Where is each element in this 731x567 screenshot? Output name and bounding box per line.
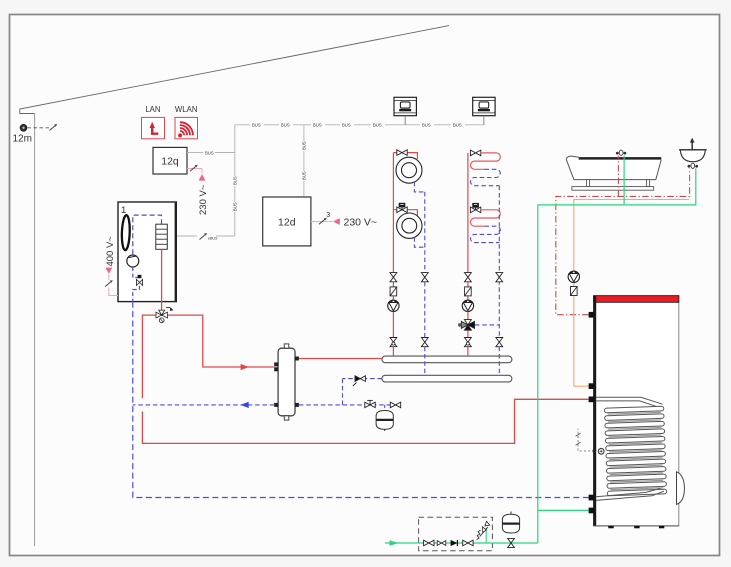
thermostatic valve floor loop 2 <box>470 203 480 213</box>
expansion vessel heating <box>376 411 393 432</box>
wire green cold riser <box>538 168 696 543</box>
wire eBUS top bus line <box>235 123 484 128</box>
shutoff valve radiator supply <box>390 273 397 282</box>
controller box 12d <box>263 197 311 246</box>
power 400V~ feed to boiler <box>105 236 118 296</box>
return manifold pipe <box>382 375 512 382</box>
tank flange handhole <box>677 472 685 505</box>
wire red dash-dot branch to bathtub tap <box>617 156 619 197</box>
supply manifold pipe <box>382 356 512 363</box>
boiler internal diverter valve <box>136 275 142 286</box>
wire eBUS vertical riser A <box>232 125 237 236</box>
washbasin mixer fitting <box>688 163 699 168</box>
roof line <box>20 26 449 114</box>
expansion vessel DHW <box>502 512 519 533</box>
tank connector coil supply <box>589 397 595 403</box>
power 230V~ feed to 12d <box>311 210 377 229</box>
DHW storage tank body <box>593 296 679 526</box>
wire orange circulation line <box>574 283 589 387</box>
safety group dashed enclosure <box>419 517 493 550</box>
mixing valve 3-way floor circuit <box>458 320 475 331</box>
wire blue dashed boiler return main <box>133 302 589 498</box>
tank connector cold water <box>589 508 595 514</box>
wire blue separator return to boiler (with arrow) <box>133 404 274 406</box>
svg-text:BUS: BUS <box>301 141 306 150</box>
svg-text:12m: 12m <box>13 134 32 145</box>
controller box 12q <box>153 147 187 174</box>
wire thermostat 2 drop <box>483 116 485 125</box>
boiler internal pump <box>127 255 139 267</box>
check valve circulation <box>571 287 578 296</box>
wire red <box>467 296 469 300</box>
tank connector coil return <box>589 495 595 501</box>
house wall <box>34 114 36 547</box>
check valve floor circuit <box>465 287 472 296</box>
wire red <box>392 282 394 287</box>
wire red floor supply riser <box>467 153 469 273</box>
cap valve on expansion line <box>365 400 375 407</box>
internal return circuit (blue dashed) inside boiler <box>133 215 162 255</box>
wire blue floor return lower <box>498 273 500 338</box>
wire red radiator supply riser <box>392 153 394 273</box>
electric heater block inside boiler <box>156 224 168 249</box>
thermostat 1 <box>394 97 416 115</box>
wire blue return manifold to separator branch <box>343 378 382 380</box>
wire red <box>392 296 394 300</box>
power 230V~ feed to 12q <box>187 165 209 215</box>
wire blue return to manifold <box>424 282 426 338</box>
shutoff valve floor supply <box>465 273 472 282</box>
svg-text:BUS: BUS <box>252 123 261 128</box>
shutoff valve at return manifold (radiator) <box>421 338 428 347</box>
WLAN icon <box>175 117 198 138</box>
wire blue radiator return riser <box>424 192 426 273</box>
svg-text:BUS: BUS <box>232 176 237 185</box>
wire blue dashed mixing valve bypass <box>475 324 499 326</box>
wire blue floor return riser <box>498 186 500 273</box>
check valve cold inlet <box>437 540 457 546</box>
flow arrow red into separator <box>241 364 249 370</box>
svg-text:WLAN: WLAN <box>175 105 198 114</box>
svg-text:BUS: BUS <box>453 123 462 128</box>
valve floor loop 1 <box>470 150 480 156</box>
valve under DHW vessel <box>508 538 515 547</box>
wire red radiator 1 branch <box>393 153 417 159</box>
wire red drop continues below blue crossing <box>142 399 588 443</box>
tank temperature sensor <box>576 429 605 455</box>
wire orange circulation upper <box>574 200 690 272</box>
wire red radiator 2 branch <box>393 210 417 216</box>
floor loop 2 serpentine blue part <box>471 226 501 242</box>
svg-text:230 V~: 230 V~ <box>198 184 209 215</box>
shutoff valve radiator return <box>421 273 428 282</box>
wire eBUS 12q to riser <box>187 150 235 155</box>
svg-text:12q: 12q <box>161 156 179 168</box>
wire internal blue dashed diverter down <box>133 286 140 302</box>
wire internal blue dashed pump to diverter <box>133 267 140 279</box>
svg-text:BUS: BUS <box>342 123 351 128</box>
wire thermostat 1 drop <box>404 116 406 125</box>
check valve radiator circuit <box>390 287 397 296</box>
bathtub <box>566 156 661 190</box>
outdoor sensor 12m <box>20 124 27 131</box>
wire red into supply manifold (floor) <box>467 347 469 357</box>
wire red boiler flow down to diverter valve <box>161 249 163 310</box>
end valve on expansion line <box>390 402 400 408</box>
wire red diverter to separator (supply) <box>168 315 275 367</box>
svg-text:eBUS: eBUS <box>208 237 218 241</box>
shutoff valve cold inlet <box>424 540 434 546</box>
shutoff valve at supply manifold (floor) <box>465 338 472 347</box>
svg-text:LAN: LAN <box>145 105 160 114</box>
wire eBUS boiler link <box>176 233 235 240</box>
wire blue return branch drop <box>342 379 344 405</box>
wire green cold water inlet <box>385 542 538 544</box>
svg-text:BUS: BUS <box>422 123 431 128</box>
heat exchanger ellipse inside boiler <box>121 215 130 250</box>
LAN icon <box>142 117 165 138</box>
radiator 2 <box>397 213 422 238</box>
radiator 1 <box>396 157 422 183</box>
shutoff valve at return manifold (floor) <box>496 338 503 347</box>
shutoff valve floor return <box>496 273 503 282</box>
wire green cold water line <box>538 509 589 511</box>
svg-text:12d: 12d <box>278 216 296 228</box>
heat pump unit 1 (boiler box) <box>118 202 176 302</box>
circulation pump <box>568 271 579 282</box>
svg-text:BUS: BUS <box>301 171 306 180</box>
diverter 3-way valve below boiler <box>156 307 174 322</box>
thermostat 2 <box>473 97 495 115</box>
wire red into supply manifold <box>392 347 394 357</box>
wire red pump to mixing valve <box>467 312 469 321</box>
flow arrow green inlet <box>390 540 399 546</box>
wire eBUS vertical riser B to 12d <box>301 125 306 197</box>
wire blue floor return crossing to return manifold <box>498 347 500 376</box>
svg-text:BUS: BUS <box>313 123 322 128</box>
wire blue separator right expansion line <box>299 404 401 406</box>
separator connector nubs <box>274 357 299 407</box>
valve radiator 1 <box>397 150 407 156</box>
svg-text:BUS: BUS <box>232 202 237 211</box>
tank coil heat exchanger <box>596 397 667 500</box>
wire red diverter to tank coil (left drop) <box>142 315 155 398</box>
bathtub tap fitting <box>616 150 626 155</box>
wire blue radiator return crossing to return manifold <box>424 347 426 376</box>
floor loop 2 serpentine red part <box>471 210 501 226</box>
svg-text:230 V~: 230 V~ <box>344 217 378 229</box>
svg-text:BUS: BUS <box>373 123 382 128</box>
thermostatic valve radiator 2 <box>397 203 407 213</box>
svg-text:BUS: BUS <box>205 150 214 155</box>
wire red pump to manifold valve <box>392 312 394 338</box>
wire green branch to bathtub tap <box>623 156 625 205</box>
switch on 12m lead <box>50 124 58 130</box>
svg-text:3: 3 <box>326 210 330 219</box>
wire expansion vessel drop <box>384 405 386 411</box>
svg-text:BUS: BUS <box>281 123 290 128</box>
hydraulic separator (low-loss header) <box>278 344 295 420</box>
washbasin <box>679 138 707 162</box>
wire red mixing valve to manifold <box>467 330 469 337</box>
pump floor circuit <box>462 300 473 311</box>
wire red <box>467 282 469 287</box>
tank connector circulation <box>589 383 595 389</box>
safety valve <box>477 521 490 543</box>
floor loop 1 serpentine blue part <box>471 169 501 185</box>
wire blue radiator 1 return <box>414 182 424 192</box>
pump radiator circuit <box>388 300 399 311</box>
svg-text:400 V~: 400 V~ <box>105 236 116 267</box>
wire 12m dashed lead <box>28 127 50 129</box>
tank feet <box>608 526 664 528</box>
floor loop 1 serpentine red part <box>471 153 501 169</box>
tank connector DHW out <box>589 312 595 318</box>
wire red dash-dot DHW line <box>556 168 690 314</box>
balancing valve on return branch <box>353 376 366 386</box>
wire red separator to supply manifold <box>299 358 382 360</box>
shutoff valve at supply manifold (radiator) <box>390 338 397 347</box>
wire blue radiator 2 return <box>414 237 424 247</box>
shutoff valve cold inlet 2 <box>463 540 473 546</box>
flow arrow blue toward boiler <box>240 402 248 408</box>
